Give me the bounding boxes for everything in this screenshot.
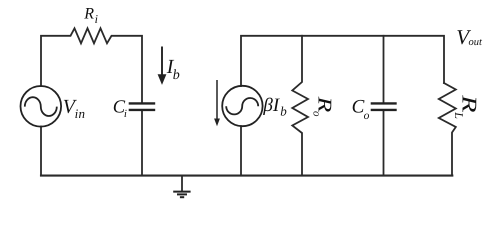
svg-text:o: o (364, 110, 370, 122)
svg-text:R: R (457, 94, 481, 113)
svg-text:out: out (469, 37, 484, 48)
svg-text:in: in (75, 106, 86, 121)
svg-text:b: b (173, 68, 180, 83)
svg-text:R: R (83, 5, 94, 22)
svg-text:R: R (314, 95, 335, 112)
svg-text:i: i (124, 108, 127, 120)
svg-text:o: o (311, 111, 323, 117)
svg-text:βI: βI (262, 95, 280, 116)
svg-text:b: b (280, 103, 287, 118)
svg-text:L: L (452, 111, 466, 119)
svg-text:i: i (95, 12, 98, 26)
